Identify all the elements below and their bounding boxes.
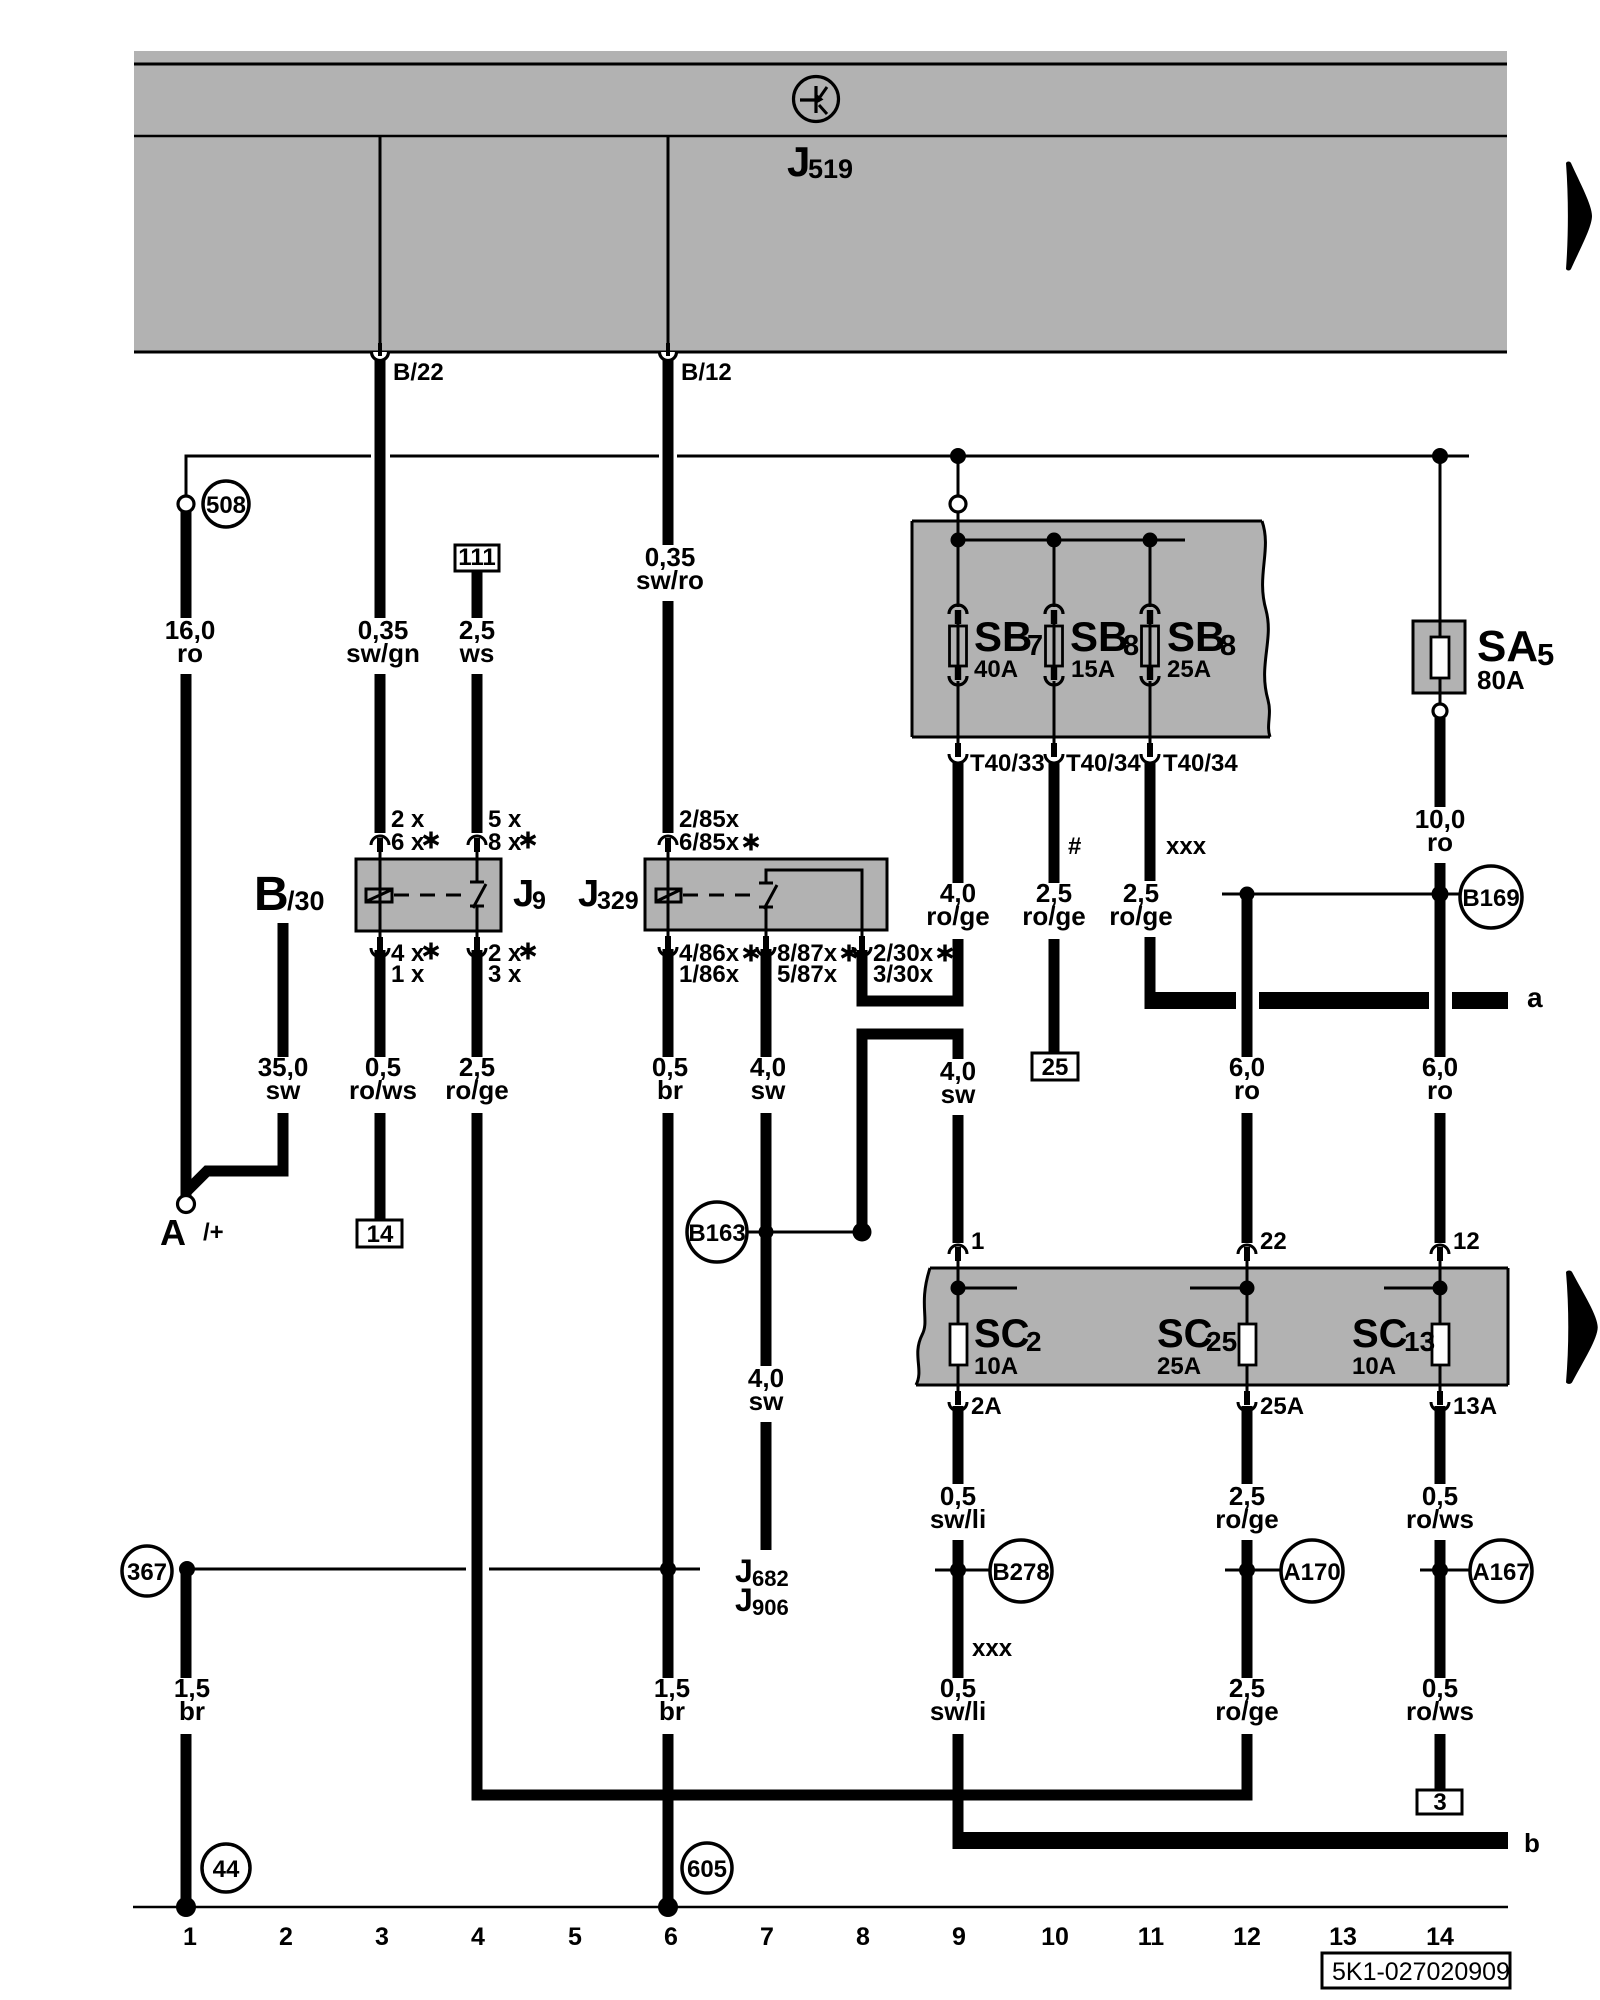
junction at col9 [950,448,966,464]
wire 4,0 sw branch from B163 to SC2 pin 1 [862,1034,958,1243]
svg-text:13A: 13A [1453,1393,1497,1420]
svg-text:ro/ws: ro/ws [1406,1504,1474,1534]
svg-text:b: b [1524,1828,1540,1858]
svg-text:B169: B169 [1462,885,1519,912]
wire 4,0 ro/ge from SB7 to J329 pin 30 [862,762,958,1001]
fuse SC2 10A [957,1268,960,1385]
J9 pin bottom right [468,930,486,957]
svg-text:6/85x: 6/85x [679,829,740,856]
terminal plug B/22 on J519 [372,343,389,361]
wire 35,0 sw with elbow to A+ [186,923,283,1192]
svg-text:ro/ge: ro/ge [1215,1504,1279,1534]
SC pin 13A [1431,1384,1449,1411]
J519 bottom border line [134,351,1507,354]
label 6,0 ro col14 [1413,1057,1467,1113]
svg-text:2: 2 [279,1923,293,1951]
fuse SB8 25A [1149,540,1152,607]
J519 inner horizontal line [134,135,1507,138]
svg-text:br: br [179,1696,205,1726]
svg-text:4: 4 [471,1923,485,1951]
wire 0,35 sw/ro [663,359,674,833]
svg-text:2A: 2A [971,1393,1002,1420]
svg-text:T40/34: T40/34 [1163,750,1238,777]
part number box [1322,1953,1510,1988]
svg-text:40A: 40A [974,656,1018,683]
svg-text:25: 25 [1042,1054,1069,1081]
svg-text:7: 7 [1027,630,1043,662]
node B163 junction line [747,1231,864,1234]
connector circle above SB box [950,496,966,512]
svg-text:3/30x: 3/30x [873,961,934,988]
svg-text:8: 8 [1123,630,1139,662]
svg-text:A170: A170 [1283,1559,1340,1586]
svg-text:/30: /30 [287,886,325,916]
svg-text:6: 6 [664,1923,678,1951]
svg-text:J: J [578,873,599,915]
wire 10,0 ro [1435,718,1446,1243]
svg-text:12: 12 [1453,1228,1480,1255]
ground symbol 605 [682,1843,732,1893]
node B169 line [1222,893,1462,896]
svg-text:367: 367 [127,1559,167,1586]
fuse box SC [916,1268,1508,1385]
terminal box 14 [357,1220,402,1247]
connector circle on 16,0 wire [178,496,194,512]
svg-text:1 x: 1 x [391,961,425,988]
svg-text:682: 682 [752,1566,789,1591]
svg-text:ro: ro [1234,1075,1260,1105]
SB internal bus [957,463,960,540]
svg-text:1: 1 [971,1228,984,1255]
svg-text:SC: SC [974,1312,1030,1356]
svg-text:SA: SA [1477,622,1538,671]
ground rail dots [176,1897,196,1917]
continuation arrow right of SC box [1566,1271,1598,1384]
scale numbers [183,1923,1454,1951]
terminal plug B/12 on J519 [660,343,677,361]
svg-text:A167: A167 [1472,1559,1529,1586]
K symbol (comfort system) in J519 [794,77,839,122]
svg-text:sw/li: sw/li [930,1504,986,1534]
svg-text:5: 5 [1537,637,1554,672]
svg-text:5: 5 [568,1923,582,1951]
svg-text:25: 25 [1206,1326,1237,1357]
svg-text:3 x: 3 x [488,961,522,988]
wire 6,0 ro [1242,894,1253,1243]
junction at col14 [1432,448,1448,464]
continuation arrow top right [1566,162,1592,271]
fuse box SB [912,521,1270,737]
svg-text:906: 906 [752,1595,789,1620]
svg-text:#: # [1068,833,1081,860]
J329 pin bottom 87 [757,929,775,956]
wire 0,5 sw/li to connector b [953,1406,964,1849]
svg-text:5/87x: 5/87x [777,961,838,988]
J519 internal wire to B/22 [379,137,382,348]
svg-text:B278: B278 [992,1559,1049,1586]
svg-text:B/22: B/22 [393,359,444,386]
svg-text:111: 111 [458,544,495,571]
J519 top border line [134,63,1507,66]
svg-text:ro/ws: ro/ws [1406,1696,1474,1726]
svg-text:9: 9 [532,887,546,915]
svg-text:25A: 25A [1260,1393,1304,1420]
svg-text:80A: 80A [1477,665,1525,695]
svg-text:J: J [787,138,810,185]
svg-text:7: 7 [760,1923,774,1951]
svg-text:22: 22 [1260,1228,1287,1255]
node 508 circle [203,481,249,527]
svg-text:ro: ro [177,638,203,668]
svg-text:13: 13 [1404,1326,1435,1357]
SB pin T40/34 (2) [1141,736,1159,763]
SB pin T40/33 [949,736,967,763]
svg-text:B: B [254,868,289,921]
wire 2,5 ro/ge to a [1145,762,1156,1009]
wire 0,35 sw/gn [375,359,386,833]
svg-text:SB: SB [1167,613,1225,660]
J9 dashed link [394,894,464,897]
svg-text:44: 44 [213,1856,240,1883]
svg-text:1: 1 [183,1923,197,1951]
svg-text:ro/ge: ro/ge [445,1075,509,1105]
label 16,0 ro [158,618,216,674]
fuse SC25 25A [1246,1268,1249,1385]
svg-text:sw/ro: sw/ro [636,565,704,595]
SC pin 1 [949,1245,967,1269]
J329 pin bottom 30 [853,929,871,956]
SC pin 12 [1431,1245,1449,1269]
J9 switch [476,859,479,882]
terminal box 111 [455,545,499,571]
svg-text:15A: 15A [1071,656,1115,683]
J519 internal wire to B/12 [667,137,670,348]
wire from bus to SA5 [1439,456,1442,621]
svg-text:SC: SC [1352,1312,1408,1356]
terminal box 3 [1417,1790,1462,1814]
svg-text:J: J [513,873,534,915]
wire 2,5 ro/ge [1049,762,1060,1053]
SB pin T40/34 [1045,736,1063,763]
control module J519 box [134,51,1507,353]
svg-text:8: 8 [1220,630,1236,662]
svg-text:508: 508 [206,492,246,519]
svg-text:9: 9 [952,1923,966,1951]
ground symbol 44 [202,1844,250,1892]
J329 coil [656,889,681,902]
SC pin 25A [1238,1384,1256,1411]
svg-text:329: 329 [597,887,639,915]
svg-text:J: J [735,1582,753,1618]
svg-text:SC: SC [1157,1312,1213,1356]
svg-text:ro: ro [1427,827,1453,857]
svg-text:B163: B163 [688,1220,745,1247]
label 35,0 sw [252,1057,314,1113]
svg-text:14: 14 [1426,1923,1454,1951]
svg-text:/+: /+ [203,1219,224,1246]
wire 4,0 sw [761,949,772,1550]
J9 pin top left [371,836,389,860]
wire 2,5 ro/ge below SC25 [1242,1406,1253,1795]
svg-text:br: br [657,1075,683,1105]
svg-text:10: 10 [1041,1923,1069,1951]
svg-text:ro: ro [1427,1075,1453,1105]
svg-text:ro/ge: ro/ge [1215,1696,1279,1726]
svg-text:ro/ws: ro/ws [349,1075,417,1105]
svg-text:14: 14 [367,1221,394,1248]
svg-text:5K1-027020909: 5K1-027020909 [1332,1958,1510,1986]
svg-text:A: A [160,1212,186,1253]
fuse SB7 40A [957,540,960,607]
SC pin 22 [1238,1245,1256,1269]
svg-text:T40/34: T40/34 [1066,750,1141,777]
J9 pin top right [468,836,486,860]
svg-text:xxx: xxx [972,1635,1013,1662]
svg-text:ro/ge: ro/ge [1022,901,1086,931]
J9 pin bottom left [371,930,389,957]
svg-text:605: 605 [687,1856,727,1883]
svg-text:a: a [1527,982,1543,1013]
svg-text:sw/li: sw/li [930,1696,986,1726]
wire 16,0 ro [181,511,192,1196]
svg-text:3: 3 [375,1923,389,1951]
svg-text:8 x: 8 x [488,829,522,856]
node B278 [935,1569,990,1572]
svg-text:11: 11 [1138,1923,1165,1951]
svg-text:br: br [659,1696,685,1726]
J9 coil [366,889,392,902]
J329 pin top [659,836,677,860]
svg-text:sw: sw [266,1075,301,1105]
fuse SB8 15A [1053,540,1056,607]
wire 2,5 ws [472,571,483,833]
svg-text:sw: sw [751,1075,786,1105]
svg-text:8: 8 [856,1923,870,1951]
svg-text:T40/33: T40/33 [970,750,1045,777]
node B163 circle [687,1202,747,1262]
J329 switch [759,882,773,885]
wire 0,5 ro/ws below SC13 [1435,1406,1446,1790]
svg-text:3: 3 [1433,1789,1446,1816]
connector circle below SA5 [1433,704,1447,718]
svg-text:SB: SB [974,613,1032,660]
svg-text:13: 13 [1329,1923,1357,1951]
svg-text:25A: 25A [1157,1353,1201,1380]
svg-text:10A: 10A [974,1353,1018,1380]
wire 0,5 ro/ws below J9 [375,950,386,1220]
node A170 [1225,1569,1281,1572]
wire 0,5/1,5 br to ground [663,949,674,1907]
svg-text:ws: ws [459,638,495,668]
J329 pin bottom 86 [659,929,677,956]
svg-text:ro/ge: ro/ge [926,901,990,931]
svg-text:sw: sw [941,1079,976,1109]
terminal box 25 [1032,1053,1078,1080]
J329 internal wire from switch to pin 30 [766,870,862,930]
node 367 line [187,1568,466,1571]
relay J9 box [356,859,501,931]
node A167 [1420,1569,1474,1572]
relay J329 box [645,859,887,930]
svg-text:12: 12 [1233,1923,1261,1951]
wire 1,5 br left [181,1569,192,1907]
svg-text:25A: 25A [1167,656,1211,683]
svg-text:6 x: 6 x [391,829,425,856]
svg-text:B/12: B/12 [681,359,732,386]
svg-text:519: 519 [808,154,853,184]
node B169 circle [1460,866,1522,928]
svg-text:sw: sw [749,1386,784,1416]
svg-text:1/86x: 1/86x [679,961,740,988]
battery terminal circle A/+ [178,1196,195,1213]
SC pin 2A [949,1384,967,1411]
svg-text:10A: 10A [1352,1353,1396,1380]
svg-text:xxx: xxx [1166,833,1207,860]
J329 dashed link [683,894,753,897]
wire 2,5 ro/ge long run to SC25 [477,950,1247,1795]
wire: plus rail [186,456,371,500]
ground rail [133,1906,1508,1909]
svg-text:sw/gn: sw/gn [346,638,420,668]
svg-text:2: 2 [1026,1326,1042,1357]
svg-text:SB: SB [1070,613,1128,660]
node 367 circle [122,1546,172,1596]
fuse SA5 box [1413,621,1465,693]
svg-text:ro/ge: ro/ge [1109,901,1173,931]
fuse SC13 10A [1439,1268,1442,1385]
